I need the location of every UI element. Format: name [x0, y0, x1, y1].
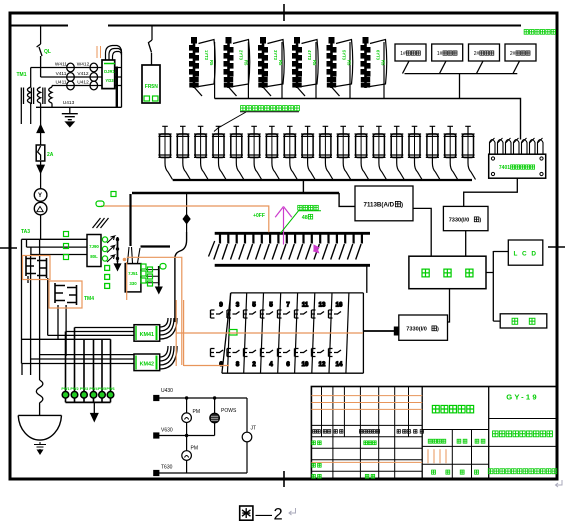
pushbutton box 1#泵停止: [432, 44, 463, 61]
svg-text:FR5N: FR5N: [145, 84, 158, 90]
7J51 contact bar: [158, 266, 160, 286]
ground stem U413: [69, 107, 71, 113]
electrode units row (18): [158, 126, 475, 179]
subtitle 用于: [493, 431, 498, 437]
svg-text:R5: R5: [278, 60, 283, 66]
array right edge wire: [366, 267, 368, 293]
svg-text:V412: V412: [77, 71, 89, 77]
tb left grid horizontals: [311, 425, 422, 471]
svg-text:TM1: TM1: [17, 72, 27, 78]
7J51 contact diamonds: [0, 0, 1, 1]
terminal V430: [154, 433, 159, 438]
svg-text:V411: V411: [56, 71, 67, 77]
svg-text:PW5: PW5: [98, 387, 106, 391]
label keyboard: [512, 318, 518, 324]
svg-text:R5: R5: [244, 60, 249, 66]
contact symbol: [295, 349, 308, 357]
svg-text:4: 4: [269, 362, 273, 368]
terminal U430: [154, 396, 159, 401]
ground symbol: [62, 114, 78, 127]
tb mid verticals: [452, 430, 471, 480]
flag XT5: [336, 40, 353, 87]
cable comb 7401: [490, 140, 544, 155]
junction wire curve to KM column: [175, 232, 187, 322]
wire row2 V411: [31, 68, 102, 88]
wire computer to peripherals: [486, 251, 508, 321]
svg-text:.: .: [417, 429, 418, 434]
matrix wire row3: [31, 247, 87, 254]
array divider: [261, 293, 264, 373]
svg-text:1#: 1#: [437, 51, 443, 57]
svg-text:R5: R5: [312, 60, 317, 66]
wire drop to shelf: [459, 74, 461, 99]
orange rect core B: [49, 281, 82, 308]
svg-text:W412: W412: [77, 62, 90, 68]
tb divider mid: [421, 387, 423, 480]
electrode unit 10: [319, 126, 333, 179]
svg-text:11: 11: [302, 303, 309, 309]
svg-text:7330(I/0: 7330(I/0: [449, 218, 470, 224]
SEC-TEXTS: [17, 30, 556, 471]
wire rail V430: [159, 435, 215, 437]
meter circle Y: [34, 189, 47, 202]
switch QL: [37, 44, 42, 77]
contact symbol: [211, 349, 224, 357]
KM41 wires: [48, 328, 134, 336]
wire IO lower to contact array: [363, 330, 398, 332]
flag XT1: [199, 40, 216, 87]
matrix vertical V1: [21, 239, 23, 363]
wire FR5N drop: [151, 26, 153, 41]
magenta arrow up: [275, 207, 320, 254]
svg-text:PW6: PW6: [106, 387, 114, 391]
contact symbol: [244, 349, 257, 357]
sensor FR5N-B box: [142, 65, 160, 103]
svg-text:80L: 80L: [90, 254, 98, 259]
SEC-BLOBS: [190, 38, 521, 140]
frame center tick right: [548, 246, 565, 248]
pilcrow mark corner: [556, 480, 563, 487]
connector column XT2: [224, 38, 250, 97]
svg-text:PW3: PW3: [80, 387, 88, 391]
matrix vertical V2: [30, 255, 32, 360]
svg-text:7401: 7401: [499, 165, 510, 171]
computer box: [409, 256, 486, 289]
frame center tick bottom: [283, 471, 285, 487]
branch JT vertical: [246, 398, 248, 473]
orange harness: [23, 46, 364, 366]
matrix wire row2: [27, 239, 88, 247]
array enclosure top: [231, 292, 364, 294]
electrode unit 8: [283, 126, 297, 179]
svg-text:5: 5: [252, 303, 256, 309]
svg-text:—2: —2: [256, 506, 285, 524]
svg-text:R5: R5: [209, 60, 214, 66]
feeder wire: [40, 107, 42, 145]
corner screw 3: [491, 172, 494, 175]
stem bus wire: [22, 338, 111, 340]
svg-text:T630: T630: [161, 465, 173, 471]
svg-text:2: 2: [252, 362, 256, 368]
bus wire top left segment: [10, 25, 68, 27]
junction dot 1: [185, 396, 188, 399]
svg-text:5: 5: [269, 303, 273, 309]
relay 7J51 box: [125, 264, 141, 292]
transformer core B: [55, 283, 77, 305]
wire IO to computer: [465, 231, 467, 257]
connector column XT5: [327, 38, 353, 97]
left grid header labels: [313, 430, 316, 434]
orange loop main: [127, 257, 182, 365]
electrode unit 6: [248, 126, 262, 179]
svg-text:6YT3: 6YT3: [376, 50, 381, 61]
svg-text:7J90: 7J90: [89, 244, 99, 249]
contact symbol: [329, 349, 342, 357]
pushbutton box 1#泵启动: [395, 44, 426, 61]
relay ladder teeth: [214, 234, 362, 260]
orange node: [123, 258, 127, 262]
electrode unit 4: [212, 126, 226, 179]
branch POWS vertical: [214, 398, 216, 436]
LCD box: [508, 240, 543, 265]
flag XT6: [370, 40, 387, 87]
tb orange rules: [311, 396, 446, 464]
pushbutton box 2#泵启动: [469, 44, 500, 61]
cable hatch marks: [93, 218, 109, 228]
svg-text:8: 8: [236, 362, 240, 368]
contact symbol: [261, 310, 274, 318]
indicator drain arrow: [91, 403, 98, 421]
shelf wire to connector drop: [215, 99, 521, 140]
wire rows to 7J51 bar: [146, 270, 159, 283]
svg-text:PM: PM: [193, 409, 201, 415]
stall divider 2: [247, 42, 249, 99]
svg-text:7J51: 7J51: [128, 271, 138, 276]
orange rect core A: [23, 256, 51, 280]
DJR1 right bar: [116, 67, 118, 108]
7J90 contact row 1: [102, 236, 119, 262]
IO board box upper: [443, 206, 488, 230]
SEC-BOTTOM: [154, 396, 252, 476]
wire rail U430: [159, 397, 247, 399]
switch stroke under box3: [477, 61, 484, 74]
array enclosure right: [362, 293, 364, 373]
relay ladder top bar: [215, 232, 370, 235]
svg-text:2A: 2A: [47, 152, 54, 158]
bus drop wire: [302, 180, 304, 193]
7J90 bar arrow: [115, 262, 121, 270]
junction vertical wire: [186, 193, 188, 232]
frame center tick top: [283, 4, 285, 21]
electrode unit 13: [372, 126, 386, 179]
electrode unit 16: [426, 126, 440, 179]
wire rail T630: [159, 472, 247, 474]
stall divider 6: [383, 42, 385, 99]
orange wire to ladder: [101, 206, 269, 232]
core B legs: [58, 305, 66, 356]
svg-text:1YT3: 1YT3: [204, 50, 209, 61]
DJR1 loop bar: [121, 52, 123, 107]
electrode unit 18: [461, 126, 475, 179]
transformer TM1 coil 3: [43, 87, 52, 104]
electrode bus wire: [173, 179, 472, 181]
loop bottom wire: [36, 106, 122, 108]
svg-text:PW2: PW2: [70, 387, 78, 391]
IO board box lower: [399, 315, 448, 340]
wire TM1 legs: [21, 103, 52, 124]
array divider: [329, 293, 332, 373]
SEC-TITLEBLOCK: [311, 387, 556, 480]
electrode note underline: [240, 111, 299, 113]
orange stubs above DJR1: [97, 46, 101, 58]
relay ladder bottom bar: [215, 264, 370, 267]
indicator stems: [66, 328, 111, 392]
AD board box: [355, 186, 413, 221]
green connector squares scattered: [64, 192, 167, 287]
svg-text:16: 16: [336, 303, 343, 309]
tb divider right: [488, 387, 490, 480]
stall divider 3: [281, 42, 283, 99]
svg-text:V630: V630: [161, 428, 173, 434]
array divider: [228, 293, 231, 373]
electrode unit 17: [444, 126, 458, 179]
svg-text:W411: W411: [55, 62, 68, 68]
top right note: [524, 30, 528, 35]
electrode unit 15: [408, 126, 422, 179]
arrow up on feeder: [37, 125, 44, 133]
electrode unit 5: [230, 126, 244, 179]
svg-text:9: 9: [219, 303, 223, 309]
stall divider 4: [315, 42, 317, 99]
wire AD to computer: [413, 208, 431, 256]
7J51 bar arrow: [156, 286, 162, 294]
SEC-MIDDLE: [101, 193, 370, 373]
meter PM upper: [182, 413, 192, 423]
indicator lower stubs: [66, 398, 111, 402]
electrode unit 7: [265, 126, 279, 179]
flag XT3: [268, 40, 285, 87]
svg-text:R5: R5: [381, 60, 386, 66]
wire to meters: [40, 171, 42, 189]
KM42 coil box: [134, 354, 160, 371]
arrow down feeder: [37, 161, 44, 173]
relay ladder left slant: [209, 241, 215, 257]
svg-text:PM: PM: [191, 446, 199, 452]
svg-text:GY-19: GY-19: [506, 393, 539, 402]
DJR1 stub wires: [115, 68, 122, 86]
svg-text:): ): [479, 218, 481, 224]
array divider: [312, 293, 315, 373]
contact symbol: [227, 310, 240, 318]
KM42 wires: [22, 355, 134, 364]
wire QL drop: [40, 26, 42, 45]
SEC-TBTEXT: [312, 393, 557, 479]
pilcrow mark caption: [289, 508, 296, 515]
mid labels: [428, 439, 432, 443]
contact array columns: [211, 293, 364, 373]
svg-text:7: 7: [286, 303, 290, 309]
svg-text:DJR1: DJR1: [104, 69, 115, 74]
contact symbol: [261, 349, 274, 357]
pushbutton box 2#泵停止: [505, 44, 536, 61]
keyboard box: [500, 314, 547, 328]
svg-text:2YT3: 2YT3: [239, 50, 244, 61]
flag XT2: [233, 40, 250, 87]
company: [488, 469, 493, 474]
SEC-TOPLEFT: [21, 26, 160, 240]
array divider: [278, 293, 281, 373]
junction dot 2: [213, 396, 216, 399]
corner screw 1: [491, 157, 494, 160]
meter letter D: [37, 207, 43, 212]
switch stroke under box2: [440, 61, 447, 74]
electrode unit 2: [176, 126, 190, 179]
svg-text:JT: JT: [251, 426, 257, 432]
switch stroke under box4: [513, 61, 520, 74]
transformer core A: [26, 256, 47, 278]
electrode unit 9: [301, 126, 315, 179]
transformer TM1 coil 2: [31, 87, 40, 104]
contact symbol: [312, 310, 325, 318]
corner screw 4: [540, 172, 543, 175]
contact symbol: [227, 349, 240, 357]
switch FR5N: [148, 40, 152, 65]
svg-text:2#: 2#: [474, 51, 480, 57]
svg-text:KM42: KM42: [140, 362, 154, 368]
caption 图—2: [240, 506, 253, 520]
svg-text:+0FF: +0FF: [253, 213, 265, 219]
stall divider 1: [214, 42, 216, 99]
electrode unit 12: [355, 126, 369, 179]
magenta arrow diag: [305, 238, 320, 254]
DJR1 green band: [104, 63, 115, 65]
collector branch wire: [141, 245, 171, 247]
svg-text:POWS: POWS: [221, 408, 237, 414]
contact symbol: [278, 349, 291, 357]
junction dot 3: [185, 434, 188, 437]
connector column XT4: [293, 38, 319, 97]
SEC-LEFTMATRIX: [18, 46, 363, 454]
motor ground: [34, 442, 46, 454]
step wire to AD board: [339, 193, 355, 206]
array enclosure left slant: [222, 293, 231, 373]
svg-text:U411: U411: [55, 79, 66, 85]
svg-text:KM41: KM41: [140, 332, 154, 338]
svg-text:.: .: [411, 429, 412, 434]
flag XT4: [302, 40, 319, 87]
title 电气原理图: [432, 405, 439, 412]
contact symbol: [244, 310, 257, 318]
wire computer to IO lower: [448, 289, 450, 322]
svg-text:6: 6: [286, 362, 290, 368]
7J90 contact bar: [117, 237, 119, 262]
magenta arrow right: [283, 244, 321, 250]
junction diamond node: [183, 215, 190, 224]
meter circle D: [34, 202, 47, 215]
contact symbol: [211, 310, 224, 318]
orange wire crossing array: [176, 332, 363, 334]
electrode unit 14: [390, 126, 404, 179]
svg-text:U430: U430: [161, 388, 173, 394]
green leader line: [281, 211, 322, 233]
title block outer: [311, 387, 556, 480]
array divider: [295, 293, 298, 373]
green tap on orange wire: [230, 330, 238, 336]
svg-text:5YT3: 5YT3: [342, 50, 347, 61]
indicator circles: [62, 392, 114, 399]
KM41 outgoing bundle: [160, 318, 177, 339]
connector column XT1: [190, 38, 216, 97]
svg-text:330: 330: [129, 281, 137, 286]
collector wire thick: [132, 192, 339, 194]
wire DJR1 top arc: [106, 46, 122, 61]
pushbutton common wire: [405, 73, 518, 75]
svg-text:): ): [401, 202, 403, 209]
svg-text:13: 13: [319, 303, 326, 309]
svg-text:7113B(A/D: 7113B(A/D: [364, 202, 395, 209]
indicator common wire: [66, 401, 111, 403]
wire TA3 drop: [40, 215, 42, 239]
stall divider 5: [349, 42, 351, 99]
label computer: [422, 269, 429, 277]
svg-text:TA3: TA3: [21, 229, 30, 235]
CT circle column B: [90, 63, 98, 72]
label leader line: [214, 112, 246, 132]
svg-text:QL: QL: [44, 49, 51, 55]
relay DJR1 box: [102, 60, 115, 89]
svg-text:L C D: L C D: [513, 251, 537, 258]
contact symbol: [278, 310, 291, 318]
frame center tick left: [0, 247, 17, 249]
branch PM vertical: [186, 398, 188, 473]
wire 7401 to IO: [464, 178, 518, 206]
7J51 terminal squares: [105, 266, 110, 271]
svg-text:1#: 1#: [400, 51, 406, 57]
electrode note: [241, 106, 246, 111]
orange vertical pair: [176, 300, 183, 366]
svg-text:3: 3: [236, 303, 240, 309]
transformer TM1 coil 1: [21, 87, 30, 104]
terminal T630: [154, 471, 159, 476]
switch stroke under box1: [403, 61, 410, 74]
orange wire lower stub: [184, 365, 229, 367]
electrode unit 3: [194, 126, 208, 179]
svg-text:U413: U413: [63, 100, 75, 106]
motor bell: [18, 415, 61, 440]
meter POWS: [210, 413, 220, 423]
svg-text:48: 48: [302, 215, 308, 221]
svg-text:TM4: TM4: [84, 296, 94, 302]
cable vertical from collector: [129, 194, 131, 246]
terminal box 7401: [489, 154, 546, 178]
svg-text:7330(I/0: 7330(I/0: [406, 327, 427, 333]
array divider: [346, 293, 349, 373]
label data switch: [298, 205, 302, 210]
svg-text:R5: R5: [347, 60, 352, 66]
CT circle column A: [67, 63, 75, 72]
KM42 wire stubs: [22, 359, 31, 375]
wire row3 U411: [52, 86, 102, 88]
FR5N-B terminals: [144, 96, 150, 101]
electrode unit 1: [158, 126, 172, 179]
svg-text:Y: Y: [38, 193, 42, 199]
contact symbol: [312, 349, 325, 357]
svg-text:3YT3: 3YT3: [273, 50, 278, 61]
SEC-TOPRIGHT: [395, 44, 536, 99]
svg-text:PW1: PW1: [61, 387, 69, 391]
meter PM lower: [182, 451, 192, 461]
meter JT: [242, 432, 252, 442]
